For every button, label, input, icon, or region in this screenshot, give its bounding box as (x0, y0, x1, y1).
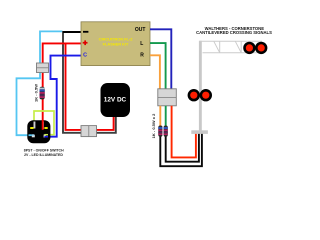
wire: cyan from switch LED terminal up and over to negative junction (17, 31, 63, 135)
svg-text:12V DC: 12V DC (104, 96, 127, 103)
terminal block TB3 (signal feed) (158, 89, 177, 106)
resistor R1 1K 0.5W on red wire (40, 87, 45, 100)
svg-text:C: C (83, 53, 87, 59)
wire: red positive from FL-2 plus terminal left to switch branch (43, 43, 81, 130)
pin label L (140, 41, 143, 47)
switch S1 LED window left (30, 127, 34, 129)
signal base plate (191, 130, 208, 134)
svg-text:L: L (140, 41, 143, 47)
signal head lower-left lamp (188, 89, 200, 101)
svg-text:1K - 0.5W: 1K - 0.5W (33, 84, 38, 102)
wire: blue from FL-2 C terminal down to switch right terminal (45, 56, 82, 137)
wire tip: yellow-green into switch (44, 134, 48, 136)
signal head upper-right lamp (255, 42, 267, 54)
resistor R3 1K 0.5W (164, 126, 168, 137)
cantilever truss (199, 41, 262, 52)
switch S1 terminal slot top-left (34, 122, 36, 129)
wire: blue OUT from FL-2 to terminal block TB3 (150, 29, 171, 89)
wire: red positive branch down to 12V DC supply (66, 43, 114, 129)
wire: orange-red OUT return from TB3 down and around to signal base (172, 106, 196, 158)
label switch S1 (24, 148, 64, 157)
svg-text:FLASHER KIT: FLASHER KIT (103, 41, 129, 46)
signal mast (199, 41, 202, 131)
wire: black negative from FL-2 minus terminal down to 12V DC supply (63, 32, 116, 133)
flasher module U1 Circuitron FL-2 (81, 22, 150, 66)
svg-text:CANTILEVERED CROSSING SIGNALS: CANTILEVERED CROSSING SIGNALS (196, 30, 272, 35)
wire: black lead from R3 around bottom to signal base (middle loop) (166, 132, 199, 162)
signal head lower-right lamp (200, 89, 212, 101)
power supply 12V DC (101, 83, 131, 117)
switch S1 body (27, 120, 50, 143)
pin label C (83, 53, 87, 59)
pin label R (140, 53, 144, 59)
svg-text:8PST - ON/OFF SWITCH: 8PST - ON/OFF SWITCH (24, 148, 64, 152)
label R1 value 1K - 0.5W (rotated) (33, 84, 38, 102)
wire tip: blue into switch (44, 136, 48, 138)
svg-text:1K - 0.5W x 2: 1K - 0.5W x 2 (151, 113, 156, 138)
resistor R2 1K 0.5W (158, 126, 162, 137)
wire: orange from TB3 down to resistor R2 (159, 106, 161, 126)
svg-text:R: R (140, 53, 144, 59)
wire: orange R from FL-2 to terminal block TB3 (150, 55, 160, 89)
pin label plus (83, 40, 88, 45)
signal head upper-left lamp (243, 42, 255, 54)
pin label minus (83, 31, 88, 33)
wire: black lead from R2 around bottom to signal base (outer loop) (160, 132, 202, 166)
label R2/R3 value 1K - 0.5W x 2 (rotated) (151, 113, 156, 138)
wire: green from TB3 down to resistor R3 (165, 106, 167, 126)
switch S1 LED window right (44, 127, 48, 129)
wire: green L from FL-2 to terminal block TB3 (150, 43, 166, 89)
wire: yellow-green loop from switch top-left around to lower right terminal (34, 111, 54, 135)
terminal block TB1 (on red/cyan feed) (37, 63, 49, 73)
wire tip: red into switch (42, 120, 44, 130)
wire tip: cyan into switch (29, 134, 35, 136)
label signals heading (196, 26, 272, 35)
switch S1 terminal slot left (32, 135, 35, 138)
switch S1 terminal slot right (44, 135, 46, 138)
pin label OUT (135, 27, 146, 33)
switch S1 terminal slot top-right (42, 122, 44, 130)
terminal block TB2 (12V feed) (81, 126, 97, 137)
svg-text:2V - LED ILLUMINATED: 2V - LED ILLUMINATED (24, 153, 63, 157)
svg-text:OUT: OUT (135, 27, 146, 33)
